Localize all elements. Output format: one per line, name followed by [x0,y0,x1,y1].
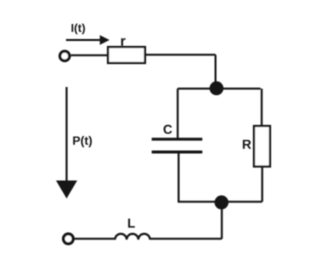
wire top corner down to node A [215,55,217,88]
wire resistor r to top corner [145,54,216,56]
node B (bottom junction) [215,195,229,209]
inductor L [115,234,150,240]
label L [128,219,135,228]
wire resistor R branch upper [261,89,263,126]
capacitor C plates [152,139,203,152]
wire bottom rail left segment [75,238,116,240]
terminal (bottom-left) [63,234,73,244]
wire capacitor branch lower [178,152,180,202]
resistor r [108,47,145,63]
resistor R [254,126,270,167]
wire terminal to resistor r [71,54,108,56]
label C [164,125,173,134]
power label P(t) [73,136,92,147]
wire node B down to bottom rail [221,202,223,238]
wire bottom of parallel loop [178,201,263,203]
node A (top junction) [210,81,224,95]
wire capacitor branch upper [177,89,179,139]
current arrow I(t) [66,35,110,45]
label R [243,140,251,149]
wire resistor R branch lower [261,167,263,202]
current label I(t) [72,24,85,35]
wire top of parallel loop [178,88,261,90]
label r [121,38,125,46]
terminal (top-left input) [60,51,70,61]
power arrow P(t) [56,87,77,199]
wire bottom rail right segment [150,238,222,240]
